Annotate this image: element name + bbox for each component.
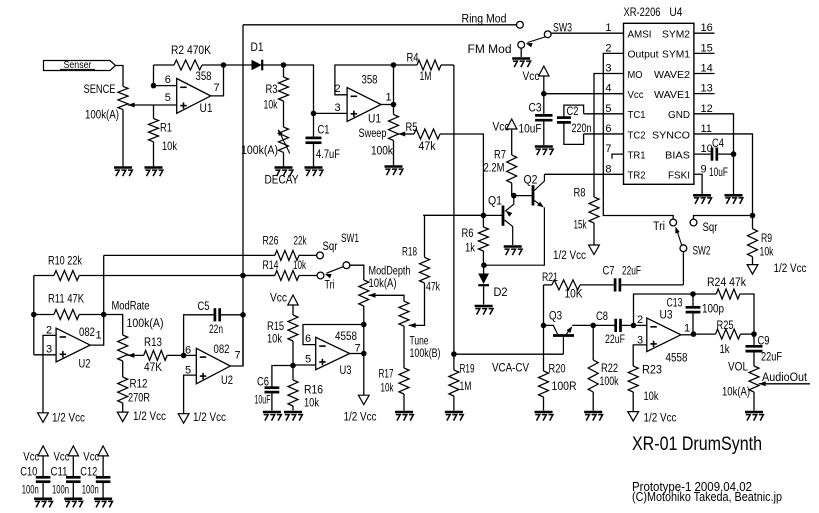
ground R19 [445,411,463,414]
svg-text:7: 7 [235,350,241,362]
wire pin6 TC2 [584,133,624,135]
svg-text:358: 358 [362,75,378,87]
resistor R14 10k [275,271,299,281]
svg-text:5: 5 [305,354,311,366]
wire output to D1 [224,64,252,66]
ground R1 [145,166,163,169]
ground C12 [94,497,112,500]
half Vcc R8 [589,245,600,255]
node junction R2/pin6 [151,83,157,89]
svg-text:Vcc: Vcc [83,452,99,464]
svg-text:082: 082 [79,327,95,339]
svg-text:VOL: VOL [728,362,749,374]
svg-text:R11 47K: R11 47K [48,294,84,306]
resistor R20 100R [543,325,545,371]
svg-text:47K: 47K [144,362,162,374]
svg-text:R24 47k: R24 47k [707,277,746,289]
svg-text:R23: R23 [642,365,662,377]
svg-text:FM Mod: FM Mod [468,44,512,56]
ground SENCE pot [114,166,132,169]
wire Sqr to SYNCO [694,216,753,220]
resistor R24 47k [693,293,716,295]
svg-text:2: 2 [605,42,611,54]
svg-text:10k: 10k [293,260,306,272]
resistor R3 10k [283,65,285,77]
op-amp U1 358 (second half) [347,88,381,122]
ground DECAY [275,166,293,169]
svg-text:SYM2: SYM2 [662,29,690,41]
wire U3b output [681,334,694,336]
svg-text:1k: 1k [720,344,730,356]
svg-text:C3: C3 [529,103,542,115]
svg-text:R19: R19 [460,364,475,376]
svg-text:C10: C10 [20,467,37,479]
svg-text:TC2: TC2 [628,129,646,141]
switch SW2 [680,245,687,252]
resistor R8 15k [589,197,599,223]
svg-text:10uF: 10uF [709,167,728,179]
svg-text:10k: 10k [162,141,177,153]
wire U2a output up [90,315,104,346]
svg-text:100n: 100n [82,485,99,497]
wire pin3 to R23 [633,345,647,366]
svg-text:10k: 10k [760,247,774,259]
diode D1 [252,60,262,71]
capacitor C4 10uF [711,148,714,161]
svg-text:SYNCO: SYNCO [652,129,690,141]
node C5 right [240,312,246,318]
svg-text:U3: U3 [340,365,352,377]
svg-text:SW1: SW1 [341,233,359,245]
svg-text:358: 358 [196,71,212,83]
resistor R9 10k [752,216,754,229]
svg-text:10uF: 10uF [255,395,271,407]
svg-text:MO: MO [628,69,643,81]
half Vcc R12 [117,412,128,422]
svg-text:15k: 15k [574,220,587,232]
svg-text:3: 3 [46,344,52,356]
wire U1b feedback [335,65,394,95]
wire pin5 U3a [293,364,316,366]
svg-text:Sqr: Sqr [703,222,718,234]
ground R17 [395,411,413,414]
wire pin6 feedback [303,325,364,345]
svg-text:R14: R14 [263,260,279,272]
svg-text:WAVE1: WAVE1 [654,89,690,101]
svg-text:C1: C1 [318,125,330,137]
half Vcc R9 [747,265,758,275]
wire R4 right rail down [453,65,455,354]
ground C3 [535,145,553,148]
svg-text:Output: Output [628,49,659,61]
pin 12 GND wire [694,114,734,196]
svg-text:C9: C9 [758,336,770,348]
svg-text:10k: 10k [381,383,394,395]
svg-text:6: 6 [165,74,171,86]
svg-text:47k: 47k [426,282,440,294]
node Tri SW1 terminal [317,272,324,279]
wire pin3 U2a [34,354,56,356]
svg-text:C2: C2 [567,106,579,118]
wire pin2 to U3b [634,324,647,326]
svg-text:SYM1: SYM1 [662,49,690,61]
svg-text:100n: 100n [52,485,69,497]
svg-text:U1: U1 [200,103,213,115]
svg-text:4.7uF: 4.7uF [316,149,340,161]
half Vcc U2b [178,414,189,424]
node C13 top [690,291,696,297]
wire pin3 MO down to R8 [594,74,624,198]
svg-text:16: 16 [701,22,713,34]
ground FSKI [693,194,711,197]
resistor R11 47K [34,314,54,316]
svg-text:Vcc: Vcc [270,293,287,305]
svg-text:Vcc: Vcc [628,89,644,101]
node R11 left [31,312,37,318]
svg-text:R17: R17 [379,369,394,381]
svg-text:22uF: 22uF [605,334,625,346]
svg-text:R4: R4 [407,53,419,65]
svg-text:ModRate: ModRate [112,301,150,313]
svg-text:D1: D1 [251,42,264,54]
node output junction [221,62,227,68]
capacitor C7 22uF [614,278,617,291]
wire R2 feedback left [153,65,155,86]
svg-text:R13: R13 [144,337,162,349]
wire to C1 corner [284,65,314,113]
svg-text:C13: C13 [667,298,683,310]
svg-text:10k(A): 10k(A) [722,387,750,399]
potentiometer Sweep 100k [393,105,395,115]
IC U4 XR-2206 box [624,23,694,184]
capacitor C6 10uF [272,366,293,388]
svg-text:22uF: 22uF [622,266,641,278]
svg-text:U3: U3 [660,310,673,322]
node feedback/R4 [391,62,397,68]
resistor R15 10k [292,305,294,315]
resistor R4 1M [394,64,418,66]
svg-text:R7: R7 [494,150,506,162]
node VCA junction [451,351,457,357]
wire D1 cathode to R3 [262,64,283,66]
ground C11 [64,497,82,500]
svg-text:SENCE: SENCE [84,84,116,96]
svg-text:R15: R15 [267,321,284,333]
node Sqr terminal [690,219,697,226]
svg-text:220n: 220n [572,123,592,135]
node C1 junction pin3 [311,111,317,117]
ground C6 [263,411,281,414]
svg-text:270R: 270R [128,393,150,405]
pin 11 SYNCO wire [694,134,753,216]
resistor R13 47K [144,350,167,360]
svg-text:2.2M: 2.2M [484,163,505,175]
svg-text:1k: 1k [465,243,475,255]
ground FM Mod [520,48,522,57]
half Vcc R23 [628,412,639,422]
svg-text:100R: 100R [552,381,577,393]
svg-text:R26: R26 [263,236,279,248]
svg-text:WAVE2: WAVE2 [654,69,690,81]
svg-text:1M: 1M [460,381,472,393]
node R3 top [281,62,287,68]
wire pin3 to U1b [314,112,348,114]
pin 10 BIAS to C4 [694,153,712,155]
svg-text:C6: C6 [257,377,269,389]
node R14 junction [240,273,246,279]
svg-text:U2: U2 [79,359,91,371]
svg-text:100k: 100k [600,376,619,388]
wire VCA-CV [454,353,564,355]
transistor Q2 (NPN) [514,195,533,197]
op-amp U2 082 (second half) [196,348,230,384]
resistor R7 2.2M [511,129,513,155]
node SYNCO junction [750,213,756,219]
node output/Sweep [391,102,397,108]
capacitor C12 100n [98,446,108,456]
ground VOL [745,411,763,414]
potentiometer VOL 10k(A) [749,366,759,392]
node Senser input flag [44,61,116,71]
svg-text:7: 7 [355,343,361,355]
transistor Q3 (NPN rotated) [553,334,574,337]
svg-text:C4: C4 [712,138,724,150]
svg-text:U2: U2 [221,375,233,387]
wire pin2 Output down [603,53,673,219]
svg-text:1M: 1M [420,71,432,83]
capacitor C2 220n [557,116,571,119]
svg-text:R18: R18 [402,247,417,259]
svg-text:10k: 10k [644,391,659,403]
svg-text:Ring Mod: Ring Mod [462,14,507,26]
svg-text:Sqr: Sqr [323,241,338,253]
svg-text:5: 5 [605,103,611,115]
svg-text:R5: R5 [406,122,418,134]
svg-text:082: 082 [214,344,230,356]
node feedback [361,322,367,328]
svg-text:R16: R16 [304,385,323,397]
wire Vcc R7 [507,119,517,129]
diode D2 [483,265,485,273]
svg-text:R21: R21 [542,272,558,284]
resistor R12 270R [118,377,128,403]
svg-text:10k: 10k [267,334,282,346]
half Vcc U3a [358,395,369,405]
pin 9 FSKI wire [694,174,702,195]
svg-text:4558: 4558 [666,353,688,365]
svg-text:3: 3 [335,102,341,114]
svg-text:R9: R9 [761,233,772,245]
switch SW1 [343,262,350,269]
svg-text:XR-01 DrumSynth: XR-01 DrumSynth [632,434,762,455]
svg-text:R20: R20 [549,364,566,376]
svg-text:6: 6 [305,333,311,345]
svg-text:1/2 Vcc: 1/2 Vcc [344,412,377,424]
svg-text:C7: C7 [603,266,615,278]
svg-text:Tune: Tune [410,336,429,348]
svg-text:Q2: Q2 [524,175,538,187]
ground C10 [34,497,52,500]
ground D2 [475,305,493,308]
svg-text:C8: C8 [596,311,608,323]
node output U3a [361,351,367,357]
node ModRate junction [101,312,107,318]
svg-text:1/2 Vcc: 1/2 Vcc [193,412,226,424]
svg-text:47k: 47k [419,141,436,153]
resistor R22 100k [592,325,594,360]
Vcc R15 [288,295,298,305]
ground GND pin [725,194,743,197]
svg-text:10k: 10k [264,100,278,112]
svg-text:DECAY: DECAY [265,175,299,187]
wire ModDepth bottom rail [363,325,365,354]
svg-text:7: 7 [214,82,220,94]
wire SW1 to ModDepth [350,265,364,280]
resistor R25 1k [694,333,716,335]
svg-text:2: 2 [637,314,643,326]
node R7/Q1/Q2 [511,193,517,199]
ground R22 [584,411,602,414]
svg-text:C11: C11 [51,467,68,479]
svg-text:R1: R1 [160,123,172,135]
svg-text:4558: 4558 [335,331,357,343]
node Sqr SW1 terminal [317,252,324,259]
svg-text:100k(A): 100k(A) [127,318,164,330]
svg-text:10uF: 10uF [519,124,542,136]
ground R16 [284,411,302,414]
resistor R16 10k [292,366,294,381]
svg-text:R22: R22 [601,363,618,375]
wire U1b output [381,104,393,106]
svg-text:14: 14 [701,63,713,75]
svg-text:TR1: TR1 [628,149,646,161]
ground Q1 [504,245,522,248]
svg-text:Q1: Q1 [488,196,502,208]
resistor R1 10k [153,105,155,119]
svg-text:R2 470K: R2 470K [171,45,211,57]
wire U1 output [211,65,224,96]
svg-text:Tri: Tri [653,221,665,233]
capacitor C5 22n [214,308,217,321]
svg-text:R12: R12 [130,379,148,391]
svg-text:Q3: Q3 [549,311,562,323]
capacitor C1 4.7uF [306,137,322,140]
node C4/GND net [731,151,737,157]
node R6 junction [481,213,487,219]
svg-text:Vcc: Vcc [523,71,540,83]
svg-text:3: 3 [605,63,611,75]
svg-text:R6: R6 [462,228,474,240]
capacitor C8 22uF [614,319,617,332]
wire pin5 half Vcc [184,375,197,414]
ground C1 [305,166,323,169]
svg-text:TC1: TC1 [628,109,646,121]
svg-text:1/2 Vcc: 1/2 Vcc [644,413,677,425]
svg-text:100k(A): 100k(A) [241,145,278,157]
potentiometer ModRate 100k(A) [104,315,123,336]
svg-text:BIAS: BIAS [665,149,690,161]
wire U3a output [350,353,364,355]
capacitor C11 100n [68,446,78,456]
svg-text:22k: 22k [294,236,307,248]
resistor R21 10K [544,284,552,286]
svg-text:ModDepth: ModDepth [369,266,411,278]
svg-text:VCA-CV: VCA-CV [492,363,529,375]
wire pin2 to half Vcc [43,335,56,412]
svg-text:100k: 100k [371,146,393,158]
svg-text:2: 2 [46,325,52,337]
capacitor C3 10uF [535,114,552,117]
wire R26 net vertical [103,255,105,314]
svg-text:1/2 Vcc: 1/2 Vcc [52,413,85,425]
wire SW3 to pin1 [551,32,623,34]
op-amp U3 4558 (first half) [316,337,350,369]
svg-text:12: 12 [701,103,713,115]
svg-text:Vcc: Vcc [54,452,70,464]
node Tri terminal [670,219,677,226]
svg-text:Tri: Tri [325,280,335,292]
svg-text:1: 1 [96,330,102,342]
wire ModDepth wiper to Tune [369,295,405,301]
svg-text:AudioOut: AudioOut [762,372,808,384]
svg-text:GND: GND [668,109,690,121]
capacitor C10 100n [38,446,48,456]
node R21/Q3/R20 [541,323,547,329]
svg-text:100n: 100n [22,485,39,497]
wire Ring Mod [243,24,517,26]
node pin2 U3b [631,323,637,329]
svg-text:FSKI: FSKI [668,170,690,182]
svg-text:100p: 100p [702,304,724,316]
wire Q1 base line [423,214,503,216]
svg-text:TR2: TR2 [628,170,646,182]
svg-text:R10 22k: R10 22k [48,256,82,268]
svg-text:15: 15 [701,42,713,54]
svg-text:U1: U1 [368,114,381,126]
svg-text:6: 6 [185,345,191,357]
svg-text:8: 8 [605,163,611,175]
resistor R10 22k [34,275,54,277]
wire feedback rail up [634,294,694,325]
transistor Q1 (PNP) [502,206,505,226]
capacitor C13 100p [686,306,701,309]
svg-text:11: 11 [701,123,712,135]
svg-text:R3: R3 [266,84,278,96]
potentiometer Tune 100k(B) [399,301,409,326]
svg-text:13: 13 [701,83,713,95]
half Vcc U2a [38,413,49,423]
node R15/R16/pin5 [290,363,296,369]
svg-text:C5: C5 [198,301,210,313]
pin 4 Vcc supply [539,66,549,76]
node Ring Mod terminal [517,21,524,28]
svg-text:7: 7 [605,143,611,155]
svg-text:1: 1 [605,22,611,34]
wire pin6 to op-amp [154,85,177,87]
wire SW2 to C7 [682,252,684,285]
svg-text:(C)Motohiko Takeda, Beatnic.jp: (C)Motohiko Takeda, Beatnic.jp [632,490,782,504]
potentiometer SENCE 100k(A) [118,86,128,109]
svg-text:R25: R25 [717,320,734,332]
wire Q2 collector to TR2 [544,173,623,175]
svg-text:1/2 Vcc: 1/2 Vcc [774,263,807,275]
node FM Mod terminal [518,41,525,48]
svg-text:U4: U4 [669,7,683,19]
wire LFO vertical rail [242,25,244,366]
svg-text:22uF: 22uF [761,352,782,364]
svg-text:1: 1 [684,323,690,335]
wire senser to pot [116,66,124,87]
